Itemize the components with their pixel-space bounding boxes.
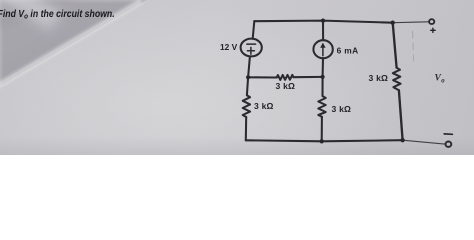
wire mid horizontal left	[248, 76, 277, 78]
svg-text:3 kΩ: 3 kΩ	[254, 101, 274, 111]
wire middle lower to resistor	[321, 77, 323, 96]
resistor right 3k (vertical zigzag)	[393, 68, 401, 91]
node junction mid left	[246, 75, 250, 79]
svg-text:3 kΩ: 3 kΩ	[332, 104, 352, 114]
faint dashed mark	[413, 31, 414, 61]
wire left mid	[248, 56, 250, 77]
resistor mid 3k (horizontal zigzag)	[277, 75, 294, 80]
wire middle mid	[322, 58, 324, 77]
node junction top middle	[321, 18, 325, 22]
node junction mid middle	[321, 75, 325, 79]
title text	[0, 8, 115, 20]
wire right branch upper	[393, 23, 397, 68]
wire top-right lead to terminal	[393, 21, 429, 24]
wire left lower to resistor	[247, 77, 248, 95]
wire middle bottom	[321, 117, 323, 142]
node junction bottom right	[400, 138, 404, 142]
resistor left 3k (vertical zigzag)	[243, 95, 250, 117]
svg-text:3 kΩ: 3 kΩ	[369, 73, 389, 83]
wire middle branch upper	[322, 21, 324, 41]
bright fold just below wedge	[0, 0, 143, 90]
wire top horizontal	[254, 21, 392, 23]
voltage source V1 12V	[241, 39, 262, 57]
plus label at terminal	[431, 28, 436, 32]
svg-text:Vo: Vo	[435, 74, 446, 85]
wire right branch lower	[399, 90, 403, 140]
wire left branch upper	[253, 21, 255, 39]
light streak in wedge corner	[0, 0, 62, 31]
darker band under text	[0, 0, 123, 35]
svg-text:3 kΩ: 3 kΩ	[276, 81, 296, 91]
svg-text:6 mA: 6 mA	[337, 46, 359, 56]
paper base gradient	[0, 0, 474, 155]
dark glare wedge top-left	[0, 0, 474, 155]
wire bottom horizontal	[246, 140, 403, 141]
wire bottom-right lead to terminal	[403, 140, 445, 144]
svg-text:Find Vo in the circuit shown.: Find Vo in the circuit shown.	[0, 8, 115, 20]
node junction top right	[391, 21, 395, 25]
minus label at terminal	[444, 133, 452, 135]
svg-text:12 V: 12 V	[220, 42, 238, 52]
current source I1 6mA	[313, 40, 332, 58]
wire mid horizontal right	[294, 76, 323, 78]
wire left bottom	[245, 117, 247, 140]
resistor middle 3k (vertical zigzag)	[318, 96, 325, 117]
node junction bottom middle	[320, 139, 324, 143]
terminal bottom-right	[446, 142, 452, 147]
bottom subtle darkening	[0, 0, 474, 155]
terminal top-right	[429, 19, 434, 24]
